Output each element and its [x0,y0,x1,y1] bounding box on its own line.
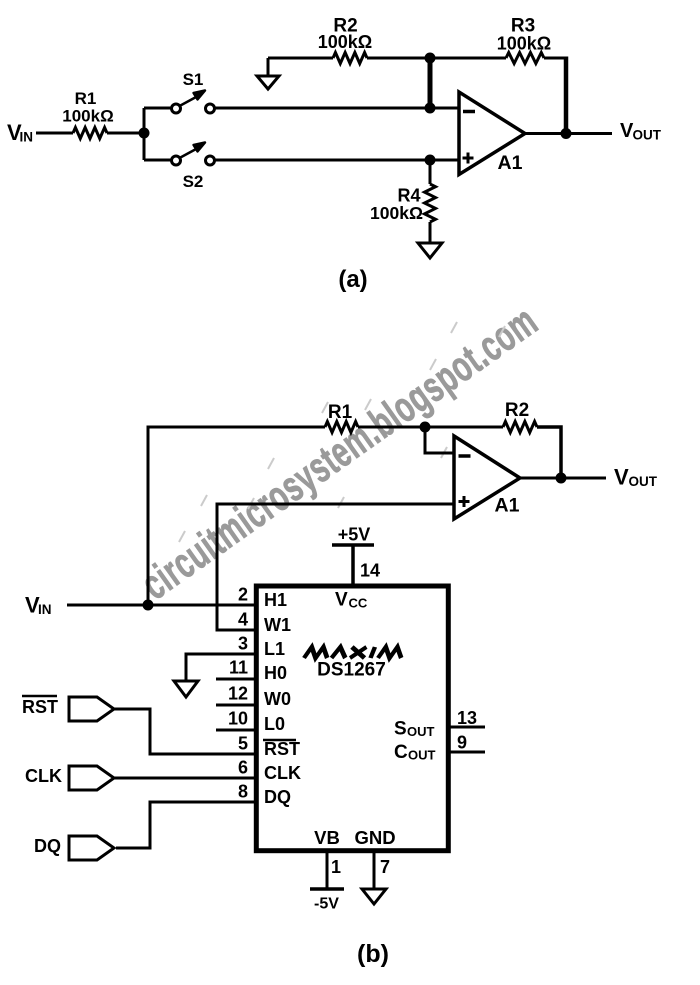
svg-text:DQ: DQ [264,787,291,807]
junction output (a) [561,128,572,139]
wire junction to R2 [425,426,503,429]
svg-text:-5V: -5V [314,896,339,913]
svg-text:A1: A1 [495,495,520,517]
junction plus input (a) [425,155,436,166]
wire R1 to junction [107,132,144,135]
svg-text:DS1267: DS1267 [317,660,386,681]
wire output (b) [520,477,606,480]
wire pin 14 [351,545,355,584]
svg-text:+5V: +5V [338,525,371,545]
ground pin 7 (b) [362,889,386,904]
svg-text:14: 14 [360,561,380,581]
svg-text:CC: CC [349,596,368,611]
svg-text:10: 10 [228,709,248,729]
resistor R1 (b) [325,422,358,433]
svg-text:6: 6 [238,758,248,778]
wire to S1 [144,107,172,110]
junction output (b) [556,473,567,484]
input flag RST [22,696,114,721]
svg-text:9: 9 [457,733,467,753]
svg-text:100kΩ: 100kΩ [62,107,113,126]
wire to S2 [144,159,172,162]
svg-text:8: 8 [238,782,248,802]
svg-text:12: 12 [228,684,248,704]
svg-text:S1: S1 [183,70,204,89]
svg-text:100kΩ: 100kΩ [318,32,372,52]
svg-text:circuitmicrosystem.blogspot.co: circuitmicrosystem.blogspot.com [132,296,546,609]
switch S1 [172,70,215,113]
wire R2 to output corner (b) [537,427,561,478]
svg-text:OUT: OUT [629,474,658,489]
MAXIM logo [304,647,403,658]
wire R3 to output corner [544,57,566,60]
svg-text:1: 1 [331,857,341,877]
svg-text:S2: S2 [183,172,204,191]
svg-text:OUT: OUT [633,128,662,143]
wire CLK flag to pin 6 [114,777,256,780]
wire plus input long (b) [217,504,453,630]
wire S1 to opamp minus [214,107,458,110]
svg-text:13: 13 [457,708,477,728]
wire VIN to chip pin 2 [67,604,256,607]
svg-text:R1: R1 [328,402,353,423]
svg-text:100kΩ: 100kΩ [370,203,423,223]
switch S2 [172,143,215,192]
svg-text:A1: A1 [498,152,523,174]
wire junction to minus input (b) [425,427,453,453]
svg-text:CLK: CLK [264,763,301,783]
svg-text:(b): (b) [357,940,389,968]
power -5V [310,887,344,891]
input flag CLK [25,766,114,790]
svg-text:RST: RST [264,739,300,759]
wire L1 to ground [186,654,256,681]
svg-text:L0: L0 [264,714,285,734]
svg-text:C: C [394,742,408,763]
junction R1/R2 (b) [420,422,431,433]
watermark text [132,296,546,609]
svg-text:H1: H1 [264,590,287,610]
svg-text:RST: RST [22,697,58,717]
resistor R4 (a) [429,160,432,184]
input flag DQ [34,836,114,860]
svg-text:CLK: CLK [25,766,62,786]
svg-text:3: 3 [238,634,248,654]
IC U1 DS1267 box [256,586,448,851]
svg-text:VB: VB [314,827,340,848]
svg-text:GND: GND [354,827,395,848]
resistor R2 (a) [333,53,367,64]
wire R2 to junction [367,57,430,60]
wire S2 to opamp plus [214,159,458,162]
wire R1 to junction (b) [358,426,425,429]
wire RST flag to pin 5 [114,709,256,754]
svg-text:IN: IN [38,602,52,617]
svg-text:DQ: DQ [34,836,61,856]
wire output (a) [525,132,612,135]
junction VIN (b) [143,600,154,611]
op-amp A1 (a) [459,92,525,175]
svg-text:V: V [614,465,629,490]
svg-text:11: 11 [229,658,248,678]
svg-text:H0: H0 [264,663,287,683]
svg-text:2: 2 [238,585,248,605]
watermark faint hatch marks [179,322,505,542]
wire R4 to ground [429,222,432,243]
wire DQ flag to pin 8 [116,802,256,848]
wire left tall vertical (b) [148,427,325,605]
wire top feedback left [268,57,333,60]
svg-text:R1: R1 [75,89,97,108]
resistor R1 (a) [73,128,107,139]
svg-text:7: 7 [380,857,390,877]
svg-text:IN: IN [20,130,34,145]
resistor R2 (b) [503,422,537,433]
svg-text:R2: R2 [505,400,529,421]
svg-text:5: 5 [238,734,248,754]
svg-text:V: V [335,590,348,611]
op-amp A1 (b) [454,436,520,519]
svg-text:L1: L1 [264,639,285,659]
resistor R3 (a) [506,53,544,64]
svg-text:W1: W1 [264,615,291,635]
svg-text:OUT: OUT [407,724,435,739]
junction top (a) [425,53,436,64]
ground R4 (a) [418,243,442,258]
svg-text:S: S [394,719,407,740]
junction minus input [425,103,436,114]
svg-text:100kΩ: 100kΩ [497,34,551,54]
wire thick vertical to minus input [428,58,433,108]
wire junction vertical [143,108,146,160]
svg-text:OUT: OUT [408,748,436,763]
junction input node [139,128,150,139]
wire VIN to R1 [36,132,73,135]
ground top left (a) [257,58,279,89]
wire junction to R3 [430,57,506,60]
svg-text:W0: W0 [264,689,291,709]
svg-text:(a): (a) [338,266,367,293]
svg-text:4: 4 [238,610,248,630]
ground L1 (b) [174,681,198,697]
